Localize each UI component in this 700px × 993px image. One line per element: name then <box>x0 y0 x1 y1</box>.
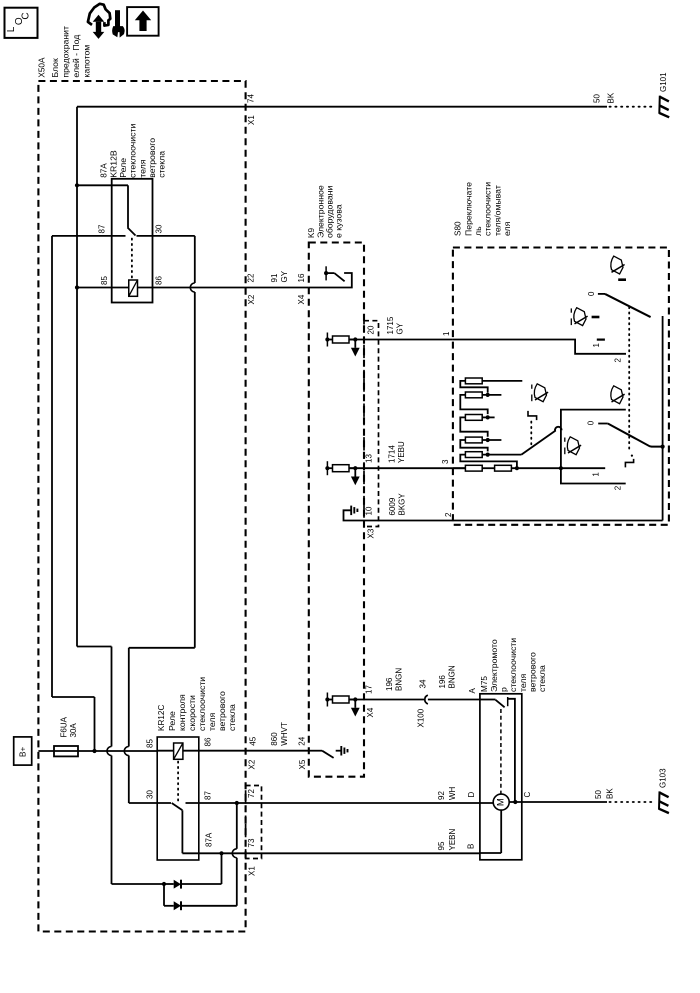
svg-text:196: 196 <box>385 677 394 691</box>
svg-text:е кузова: е кузова <box>334 204 344 238</box>
svg-text:1715: 1715 <box>386 316 395 334</box>
svg-text:стекла: стекла <box>227 704 237 731</box>
svg-text:1: 1 <box>442 331 451 336</box>
svg-text:M: M <box>496 798 507 806</box>
svg-text:B: B <box>467 844 476 849</box>
svg-text:стеклоочисти: стеклоочисти <box>508 638 518 692</box>
svg-text:45: 45 <box>249 736 258 745</box>
svg-text:0: 0 <box>587 291 596 296</box>
svg-text:D: D <box>467 792 476 798</box>
svg-text:теля: теля <box>137 159 147 177</box>
svg-text:73: 73 <box>247 838 256 847</box>
svg-text:X3: X3 <box>367 528 376 538</box>
svg-text:2: 2 <box>614 358 623 363</box>
svg-text:X50A: X50A <box>38 57 47 78</box>
svg-text:BNGN: BNGN <box>448 665 457 688</box>
svg-text:G101: G101 <box>659 72 668 92</box>
svg-text:3: 3 <box>441 459 450 464</box>
svg-text:Реле: Реле <box>167 711 177 731</box>
svg-text:95: 95 <box>437 841 446 850</box>
svg-text:85: 85 <box>100 276 109 285</box>
svg-text:85: 85 <box>146 739 155 748</box>
svg-text:34: 34 <box>419 679 428 688</box>
svg-text:91: 91 <box>270 273 279 282</box>
svg-text:X4: X4 <box>297 294 306 304</box>
svg-text:ветрового: ветрового <box>147 138 157 178</box>
svg-text:30: 30 <box>146 790 155 799</box>
svg-text:Блок: Блок <box>50 58 60 78</box>
svg-text:X1: X1 <box>247 115 256 125</box>
svg-text:теля: теля <box>518 674 528 692</box>
svg-text:10: 10 <box>365 506 374 515</box>
svg-text:F6UA: F6UA <box>60 716 69 737</box>
svg-text:16: 16 <box>297 273 306 282</box>
svg-text:KR12C: KR12C <box>157 705 166 731</box>
svg-text:S80: S80 <box>454 221 463 236</box>
svg-text:24: 24 <box>298 736 307 745</box>
svg-text:KR12B: KR12B <box>109 150 119 178</box>
svg-text:BK: BK <box>606 788 615 799</box>
svg-text:2: 2 <box>614 485 623 490</box>
svg-text:BK: BK <box>607 92 616 103</box>
svg-text:30: 30 <box>155 224 164 233</box>
svg-text:теля/омыват: теля/омыват <box>492 185 502 236</box>
svg-text:Переключате: Переключате <box>464 182 474 236</box>
svg-text:стеклоочисти: стеклоочисти <box>128 124 138 178</box>
svg-text:X1: X1 <box>248 866 257 876</box>
svg-text:предохранит: предохранит <box>60 26 70 78</box>
svg-text:C: C <box>523 792 532 798</box>
svg-text:YEBU: YEBU <box>397 441 406 463</box>
svg-text:X4: X4 <box>366 707 375 717</box>
svg-text:ль: ль <box>473 226 483 236</box>
svg-text:30A: 30A <box>69 723 78 738</box>
svg-text:20: 20 <box>367 325 376 334</box>
svg-text:C: C <box>20 12 31 19</box>
svg-text:GY: GY <box>280 270 289 282</box>
svg-text:YEBN: YEBN <box>448 828 457 850</box>
svg-text:елей - Под: елей - Под <box>71 35 81 78</box>
svg-text:стекла: стекла <box>157 151 167 178</box>
svg-text:87: 87 <box>204 791 213 800</box>
svg-text:X2: X2 <box>247 294 256 304</box>
svg-text:Реле: Реле <box>118 158 128 178</box>
svg-text:1714: 1714 <box>388 445 397 463</box>
svg-text:M75: M75 <box>480 676 489 692</box>
svg-text:13: 13 <box>365 454 374 463</box>
svg-text:WHVT: WHVT <box>280 722 289 746</box>
svg-text:X2: X2 <box>248 759 257 769</box>
svg-text:BKGY: BKGY <box>398 493 407 516</box>
svg-text:еля: еля <box>502 221 512 236</box>
svg-text:B+: B+ <box>18 747 27 757</box>
svg-text:Электромото: Электромото <box>489 639 499 692</box>
svg-text:87A: 87A <box>205 832 214 847</box>
svg-text:стекла: стекла <box>537 665 547 692</box>
svg-text:1: 1 <box>592 472 601 477</box>
svg-text:X5: X5 <box>298 759 307 769</box>
svg-text:стеклоочисти: стеклоочисти <box>197 677 207 731</box>
svg-text:87: 87 <box>98 224 107 233</box>
svg-text:50: 50 <box>593 94 602 103</box>
svg-text:WH: WH <box>448 786 457 800</box>
svg-text:6009: 6009 <box>388 497 397 515</box>
svg-text:L: L <box>6 26 17 32</box>
svg-text:74: 74 <box>247 94 256 103</box>
svg-text:87A: 87A <box>100 163 109 178</box>
svg-text:р: р <box>499 687 509 692</box>
svg-text:2: 2 <box>444 512 453 517</box>
svg-text:860: 860 <box>270 732 279 746</box>
svg-text:G103: G103 <box>659 768 668 788</box>
svg-text:теля: теля <box>207 713 217 731</box>
svg-text:1: 1 <box>592 343 601 348</box>
svg-text:0: 0 <box>587 420 596 425</box>
svg-text:стеклоочисти: стеклоочисти <box>483 182 493 236</box>
svg-text:92: 92 <box>437 791 446 800</box>
svg-text:86: 86 <box>155 276 164 285</box>
svg-text:196: 196 <box>438 675 447 689</box>
svg-text:BNGN: BNGN <box>395 668 404 691</box>
svg-text:контроля: контроля <box>177 694 187 731</box>
svg-text:17: 17 <box>364 685 373 694</box>
svg-text:ветрового: ветрового <box>217 691 227 731</box>
svg-text:50: 50 <box>594 790 603 799</box>
svg-text:ветрового: ветрового <box>527 652 537 692</box>
svg-text:A: A <box>468 688 477 694</box>
svg-text:22: 22 <box>247 273 256 282</box>
svg-text:скорости: скорости <box>187 695 197 731</box>
svg-text:X100: X100 <box>417 708 426 727</box>
svg-text:72: 72 <box>247 789 256 798</box>
svg-text:капотом: капотом <box>81 45 91 78</box>
svg-text:GY: GY <box>396 322 405 334</box>
svg-text:86: 86 <box>204 737 213 746</box>
